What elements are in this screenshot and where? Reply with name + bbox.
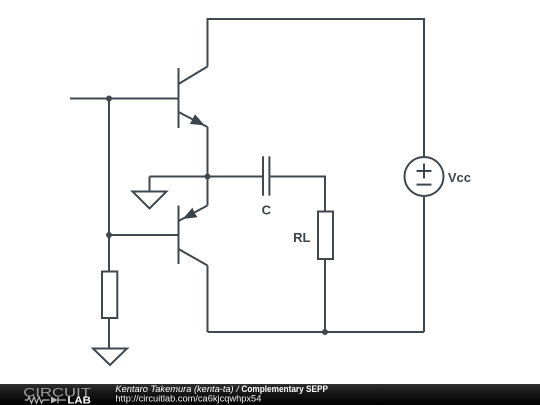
node input junction: [106, 96, 112, 102]
wire capacitor to RL top: [270, 177, 325, 212]
footer bar: [0, 384, 540, 405]
wire output node to Q2 emitter: [207, 177, 209, 206]
transistor Q2 PNP: [179, 206, 208, 266]
wire Q2 collector to bottom rail: [207, 266, 209, 333]
svg-text:C: C: [262, 203, 272, 218]
transistor Q1 NPN: [179, 67, 208, 129]
resistor R1 left: [102, 272, 117, 319]
wire RL bottom to rail: [324, 259, 326, 332]
capacitor C: [263, 156, 269, 195]
CircuitLab logo resistor-diode squiggle: [25, 397, 66, 404]
svg-text:http://circuitlab.com/ca6kjcqw: http://circuitlab.com/ca6kjcqwhpx54: [115, 393, 261, 403]
wire left resistor to ground: [108, 318, 110, 349]
wire input to Q1 base: [70, 98, 178, 100]
wire left vertical bus: [108, 99, 110, 272]
wire output node horizontal to capacitor: [150, 176, 263, 178]
node RL bottom junction: [322, 329, 328, 335]
svg-text:RL: RL: [293, 230, 310, 245]
wire top rail: [208, 19, 425, 157]
voltage source V1 Vcc: [405, 157, 444, 196]
svg-text:LAB: LAB: [67, 395, 91, 405]
wire bottom rail: [208, 331, 425, 333]
svg-text:Vcc: Vcc: [448, 170, 471, 185]
ground mid: [133, 177, 167, 209]
wire Q1 emitter to output node: [207, 127, 209, 177]
resistor RL: [318, 212, 333, 260]
node Q2 base junction: [106, 232, 112, 238]
ground bottom: [93, 349, 127, 366]
wire Q2 base: [109, 234, 178, 236]
wire Vcc bottom to bottom rail: [423, 196, 425, 332]
node A output junction: [205, 174, 211, 180]
